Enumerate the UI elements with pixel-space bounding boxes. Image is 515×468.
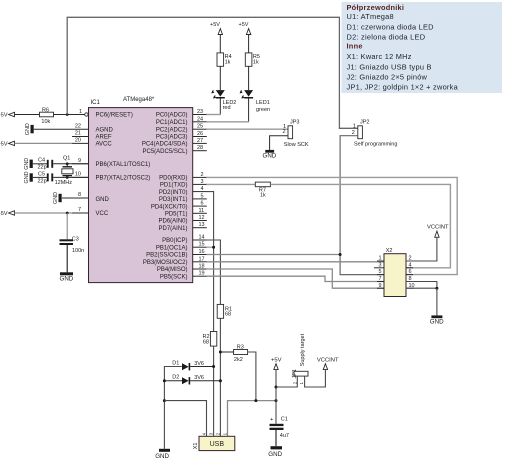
- supply +5V left (AVCC row): [0, 141, 72, 147]
- svg-text:22p: 22p: [38, 178, 47, 184]
- svg-text:27: 27: [197, 138, 203, 144]
- svg-text:PD6(AIN0): PD6(AIN0): [158, 219, 187, 225]
- LED LED1 green: [240, 90, 270, 122]
- svg-text:PB7(XTAL2/TOSC2): PB7(XTAL2/TOSC2): [96, 176, 151, 182]
- node PB1 junction: [212, 246, 215, 249]
- svg-text:Q1: Q1: [63, 155, 70, 161]
- svg-text:X1: Kwarc 12 MHz: X1: Kwarc 12 MHz: [347, 52, 412, 61]
- node R3 bottom junction: [254, 399, 257, 402]
- wire PD1 TXD to R7: [206, 183, 255, 185]
- svg-text:21: 21: [75, 131, 81, 137]
- resistor R3 2k2: [234, 345, 248, 364]
- svg-text:USB: USB: [210, 441, 225, 448]
- svg-text:JP3: JP3: [290, 119, 299, 125]
- svg-text:15: 15: [199, 242, 205, 248]
- svg-text:GND: GND: [430, 319, 444, 326]
- connector JP1 supply target: [292, 333, 308, 384]
- wire USB pin1 to +5V net: [228, 401, 277, 437]
- resistor R4 1k: [217, 53, 232, 66]
- wire junction down to ground: [436, 288, 438, 315]
- svg-text:IC1: IC1: [91, 100, 101, 106]
- svg-text:GND: GND: [25, 123, 31, 135]
- IC right pin stubs and numbers: [193, 109, 207, 277]
- svg-text:LED1: LED1: [256, 100, 270, 106]
- ground below C1: [268, 446, 282, 458]
- svg-text:1k: 1k: [260, 192, 266, 198]
- svg-text:Inne: Inne: [347, 42, 363, 51]
- ground below C3: [60, 272, 74, 282]
- svg-text:C5: C5: [38, 171, 45, 177]
- svg-text:J2: Gniazdo 2×5 pinów: J2: Gniazdo 2×5 pinów: [347, 73, 428, 82]
- svg-text:+5V: +5V: [0, 141, 8, 147]
- svg-text:+5V: +5V: [0, 211, 8, 217]
- svg-text:Półprzewodniki: Półprzewodniki: [347, 3, 405, 12]
- svg-text:R3: R3: [237, 345, 244, 351]
- node R3 junction on D-: [219, 351, 222, 354]
- svg-text:PC0(ADC0): PC0(ADC0): [156, 113, 188, 119]
- pin 1 reset bubble: [85, 113, 88, 116]
- svg-text:4u7: 4u7: [280, 433, 289, 439]
- node D1 cathode junction: [212, 365, 215, 368]
- node D2 anode junction: [163, 379, 166, 382]
- wire R3 to +5V net: [248, 352, 256, 401]
- svg-text:D1: czerwona dioda LED: D1: czerwona dioda LED: [347, 22, 434, 31]
- supply VCCINT bottom: [317, 357, 339, 369]
- capacitor C1 4u7: [270, 417, 289, 447]
- svg-text:Slow SCK: Slow SCK: [284, 142, 309, 148]
- svg-text:GND: GND: [24, 158, 30, 170]
- wire PB4 MISO to X2 pin9: [206, 269, 384, 288]
- svg-text:PD5(T1): PD5(T1): [165, 212, 188, 218]
- IC left pin labels: [96, 113, 151, 218]
- wire LED1 to pin 24: [206, 121, 249, 123]
- svg-text:24: 24: [197, 116, 203, 122]
- svg-text:16: 16: [199, 249, 205, 255]
- supply +5V above R4: [210, 22, 222, 53]
- capacitor C4 22p: [33, 157, 89, 170]
- svg-text:PC6(/RESET): PC6(/RESET): [96, 113, 133, 119]
- wire PD2 INT0 down (D+ net): [206, 192, 213, 332]
- wire PB3 MOSI to X2 pin1: [206, 261, 384, 263]
- svg-text:2: 2: [201, 172, 204, 178]
- supply +5V left (reset row): [0, 112, 15, 118]
- svg-text:2k2: 2k2: [234, 357, 243, 363]
- connector JP3 slow SCK: [283, 119, 309, 148]
- svg-text:U1: ATmega8: U1: ATmega8: [347, 12, 394, 21]
- svg-text:PD1(TXD): PD1(TXD): [160, 183, 188, 189]
- svg-text:PB3(MOSI/OC2): PB3(MOSI/OC2): [143, 260, 188, 266]
- ground for C4: [24, 158, 33, 170]
- wire R2 to USB D+ column: [213, 346, 215, 436]
- svg-text:green: green: [256, 107, 270, 113]
- svg-text:68: 68: [225, 312, 231, 318]
- wire PB1 OC1A to D+ net: [206, 246, 213, 248]
- resistor R6 10k: [40, 107, 54, 125]
- svg-text:AREF: AREF: [96, 135, 112, 141]
- capacitor C5 22p: [33, 171, 89, 184]
- svg-text:PD4(XCK/T0): PD4(XCK/T0): [151, 204, 188, 210]
- svg-text:GND: GND: [155, 453, 169, 460]
- wire JP3 pin2 to ground: [270, 136, 288, 150]
- svg-text:68: 68: [203, 339, 209, 345]
- svg-text:1: 1: [353, 123, 356, 129]
- parts list info box: [342, 2, 503, 93]
- ground below X2: [430, 315, 444, 325]
- svg-text:D2: zielona dioda LED: D2: zielona dioda LED: [347, 32, 426, 41]
- svg-text:C3: C3: [72, 236, 79, 242]
- svg-text:C1: C1: [281, 417, 288, 423]
- svg-text:26: 26: [197, 131, 203, 137]
- svg-text:PC4(ADC4/SDA): PC4(ADC4/SDA): [142, 142, 188, 148]
- ground at GND pin8: [53, 192, 62, 204]
- svg-text:PD2(INT0): PD2(INT0): [159, 190, 188, 196]
- svg-text:+5V: +5V: [210, 22, 220, 28]
- diode D1 3V6: [172, 360, 213, 370]
- wire R6 to pin1: [54, 114, 85, 116]
- wire PB5 SCK to X2 pin7: [206, 276, 384, 281]
- svg-text:JP2: JP2: [360, 119, 369, 125]
- svg-text:AGND: AGND: [96, 127, 114, 133]
- svg-text:28: 28: [197, 145, 203, 151]
- svg-text:C4: C4: [38, 157, 45, 163]
- svg-text:25: 25: [197, 124, 203, 130]
- node C1 top junction: [275, 399, 278, 402]
- svg-text:GND: GND: [268, 451, 282, 458]
- svg-text:AVCC: AVCC: [96, 142, 113, 148]
- svg-text:10: 10: [75, 172, 81, 178]
- svg-text:3: 3: [378, 262, 381, 268]
- svg-text:D1: D1: [172, 360, 179, 366]
- svg-text:17: 17: [199, 256, 205, 262]
- svg-text:PB5(SCK): PB5(SCK): [160, 274, 188, 280]
- svg-text:4: 4: [201, 186, 204, 192]
- svg-text:PB4(MISO): PB4(MISO): [157, 267, 188, 273]
- svg-text:+: +: [270, 417, 273, 423]
- svg-text:10k: 10k: [41, 119, 50, 125]
- wire R5 to LED1: [248, 66, 250, 90]
- wire +5V to R6: [15, 114, 40, 116]
- supply +5V bottom: [271, 357, 282, 400]
- svg-text:Self programming: Self programming: [354, 141, 397, 147]
- node VCC junction: [66, 212, 69, 215]
- svg-text:Supply target: Supply target: [300, 333, 306, 366]
- wire pin 25 to JP3: [206, 128, 288, 130]
- resistor R1 68: [217, 304, 232, 318]
- svg-text:JP1, JP2: goldpin 1×2 + zworka: JP1, JP2: goldpin 1×2 + zworka: [347, 83, 459, 92]
- IC left pin stubs and numbers: [62, 109, 89, 213]
- wire PB0 ICP down (D- net): [206, 240, 220, 304]
- svg-text:GND: GND: [96, 197, 110, 203]
- connector JP2 self programming: [352, 119, 398, 147]
- supply +5V left (VCC row): [0, 211, 72, 217]
- crystal Q1 12MHz: [55, 155, 73, 185]
- svg-text:3: 3: [201, 179, 204, 185]
- svg-text:7: 7: [78, 207, 81, 213]
- resistor R7 1k: [255, 182, 270, 198]
- svg-text:6: 6: [201, 201, 204, 207]
- svg-text:+5V: +5V: [0, 113, 8, 119]
- svg-text:13: 13: [199, 222, 205, 228]
- node +5V/JP1 junction: [275, 386, 278, 389]
- node X2 ground junction: [435, 287, 438, 290]
- ground for C5: [24, 171, 33, 183]
- wire +5V net to C1: [275, 401, 277, 424]
- wire JP2 pin2 down to PB2 net: [340, 136, 384, 275]
- node PB2/JP2 junction: [339, 253, 342, 256]
- svg-text:ATMega48*: ATMega48*: [123, 97, 155, 103]
- svg-text:18: 18: [199, 264, 205, 270]
- svg-text:GND: GND: [60, 276, 74, 283]
- svg-text:PD7(AIN1): PD7(AIN1): [158, 226, 187, 232]
- svg-text:5: 5: [378, 269, 381, 275]
- svg-text:PD3(INT1): PD3(INT1): [159, 197, 188, 203]
- svg-text:8: 8: [78, 192, 81, 198]
- wire LED2 to pin 23: [206, 114, 221, 116]
- svg-text:11: 11: [199, 208, 205, 214]
- connector X1 USB: [193, 432, 235, 450]
- svg-text:2: 2: [283, 129, 286, 135]
- svg-text:PC3(ADC3): PC3(ADC3): [156, 135, 188, 141]
- wire JP1 pin2 to +5V: [276, 376, 297, 387]
- svg-text:GND: GND: [24, 171, 30, 183]
- svg-text:14: 14: [199, 235, 205, 241]
- connector X2 2x5 pins: [374, 248, 415, 296]
- supply +5V above R5: [239, 22, 251, 53]
- svg-text:J1: Gniazdo USB typu B: J1: Gniazdo USB typu B: [347, 63, 432, 72]
- svg-text:+5V: +5V: [271, 357, 282, 363]
- svg-text:VCCINT: VCCINT: [317, 357, 339, 363]
- wire X2 pin8 to ground: [406, 282, 437, 289]
- svg-text:9: 9: [378, 283, 381, 289]
- svg-text:100n: 100n: [72, 248, 84, 254]
- capacitor C3 100n: [60, 236, 85, 272]
- node D2 cathode junction: [219, 379, 222, 382]
- ground below left column: [155, 449, 170, 460]
- node GND branch junction: [163, 399, 166, 402]
- svg-text:X2: X2: [386, 248, 393, 254]
- ground below JP3: [263, 150, 277, 160]
- wire reset net up and across top to JP2: [67, 17, 358, 128]
- svg-text:20: 20: [75, 138, 81, 144]
- svg-text:GND: GND: [263, 153, 277, 160]
- svg-text:PC5(ADC5/SCL): PC5(ADC5/SCL): [142, 149, 187, 155]
- svg-text:5: 5: [201, 193, 204, 199]
- svg-text:D2: D2: [172, 374, 179, 380]
- svg-text:1k: 1k: [225, 59, 231, 65]
- svg-text:19: 19: [199, 271, 205, 277]
- svg-text:1: 1: [378, 256, 381, 262]
- svg-text:22: 22: [75, 123, 81, 129]
- LED LED2 red: [212, 90, 236, 114]
- svg-text:red: red: [223, 105, 231, 111]
- wire to R3: [220, 351, 233, 353]
- supply VCCINT at X2 pin2: [427, 225, 449, 238]
- svg-text:PD0(RXD): PD0(RXD): [159, 176, 187, 182]
- svg-text:R6: R6: [42, 107, 49, 113]
- wire R4 to LED2: [219, 66, 221, 90]
- svg-text:PB2(SS/OC1B): PB2(SS/OC1B): [146, 253, 187, 259]
- svg-text:9: 9: [78, 158, 81, 164]
- wire X2 pin10 to ground: [406, 287, 437, 289]
- wire R1 to USB D- column: [219, 318, 221, 436]
- wire X2 pin2 to VCCINT: [406, 237, 437, 261]
- svg-text:VCC: VCC: [96, 211, 109, 217]
- wire JP1 pin1 to VCCINT: [305, 370, 326, 387]
- diode D2 3V6: [164, 374, 220, 384]
- wire PD0 RXD to X2 pin6 loop: [206, 177, 457, 274]
- svg-text:PB1(OC1A): PB1(OC1A): [156, 245, 188, 251]
- svg-text:3V6: 3V6: [194, 375, 204, 381]
- svg-text:PC2(ADC2): PC2(ADC2): [156, 127, 188, 133]
- wire GND branch to USB pin4: [164, 401, 206, 437]
- ground at AGND pin22: [25, 123, 72, 135]
- svg-text:22p: 22p: [38, 164, 47, 170]
- node reset junction: [66, 113, 69, 116]
- resistor R5 1k: [245, 53, 260, 66]
- svg-text:12MHz: 12MHz: [55, 180, 73, 186]
- svg-text:4: 4: [409, 262, 412, 268]
- wire PB2 SS to JP2 net: [206, 254, 340, 256]
- svg-text:1k: 1k: [253, 59, 259, 65]
- svg-text:12: 12: [199, 215, 205, 221]
- svg-text:+5V: +5V: [239, 22, 249, 28]
- svg-text:7: 7: [378, 276, 381, 282]
- svg-text:PB6(XTAL1/TOSC1): PB6(XTAL1/TOSC1): [96, 162, 151, 168]
- svg-text:X1: X1: [193, 443, 199, 450]
- wire VCC to C3: [66, 213, 68, 239]
- node D1 anode top corner: [164, 367, 181, 449]
- svg-text:6: 6: [409, 269, 412, 275]
- resistor R2 68: [202, 332, 216, 347]
- svg-text:23: 23: [197, 109, 203, 115]
- svg-text:GND: GND: [53, 192, 59, 204]
- svg-text:PC1(ADC1): PC1(ADC1): [156, 120, 188, 126]
- IC right pin labels: [142, 113, 188, 281]
- svg-text:PB0(ICP): PB0(ICP): [162, 238, 187, 244]
- svg-text:VCCINT: VCCINT: [427, 225, 449, 231]
- wire R7 to X2 pin4 loop: [270, 184, 450, 267]
- IC U1/IC1 ATmega body: [89, 97, 193, 283]
